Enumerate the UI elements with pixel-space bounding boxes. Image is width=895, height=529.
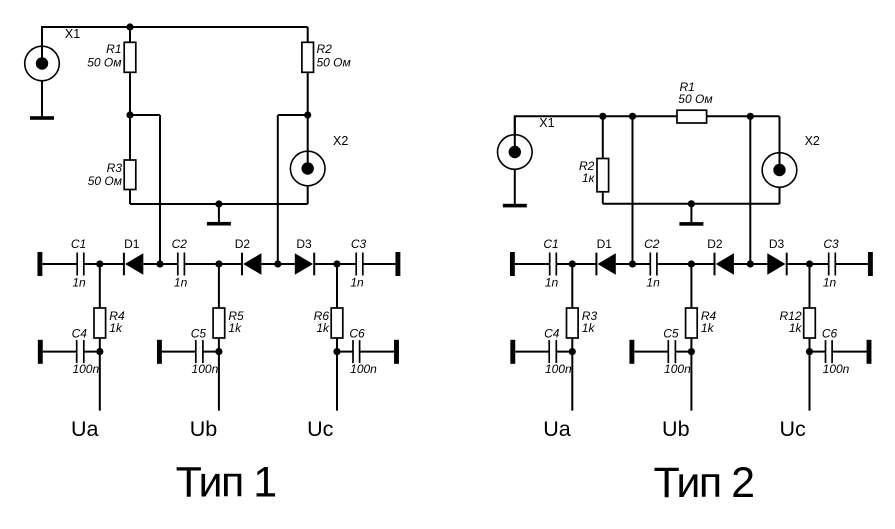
svg-text:1к: 1к [582, 171, 596, 185]
resistor R12 (type2) [804, 308, 816, 338]
wire [99, 338, 101, 352]
resistor R4 (type1) [94, 308, 106, 338]
wire [100, 263, 124, 265]
svg-text:100n: 100n [192, 362, 219, 376]
wire [832, 351, 866, 353]
wire [787, 263, 829, 265]
wire [43, 351, 77, 353]
wire (rail after R1) [707, 115, 780, 117]
wire (riser to D1/C2 node) [159, 115, 161, 264]
terminal (C4 ground type1) [38, 340, 43, 364]
wire [515, 263, 550, 265]
terminal (right rail end type1) [395, 252, 400, 276]
terminal (C4 ground type2) [510, 340, 515, 364]
svg-text:Ub: Ub [190, 417, 218, 441]
node A (R1/R3 tap) [126, 111, 133, 118]
capacitor C4 (type2) [549, 340, 556, 363]
svg-text:X1: X1 [65, 27, 80, 41]
diode D1 (type2) [596, 253, 615, 276]
wire [360, 351, 394, 353]
wire [835, 263, 868, 265]
svg-text:D1: D1 [124, 237, 140, 251]
wire (ground stem) [218, 204, 220, 222]
svg-text:100n: 100n [823, 362, 850, 376]
svg-text:50 Ом: 50 Ом [678, 92, 712, 106]
wire [261, 263, 296, 265]
svg-text:Ua: Ua [71, 417, 99, 441]
wire (X1 to ground) [41, 81, 43, 117]
wire (output stub Ua) [99, 352, 101, 411]
capacitor C1 (type2) [550, 253, 557, 276]
resistor R2 (type1) [302, 42, 314, 72]
node C1/D1 (type1) [96, 260, 103, 267]
resistor R1 (type1) [124, 42, 136, 72]
svg-text:R1: R1 [106, 42, 121, 56]
wire (R3 top stem) [129, 115, 131, 160]
node Ub output (type1) [215, 348, 222, 355]
wire [634, 351, 668, 353]
wire [572, 263, 596, 265]
wire (tap to riser) [130, 114, 160, 116]
wire [571, 264, 573, 308]
wire (output stub Uc) [809, 352, 811, 411]
svg-text:C6: C6 [349, 327, 365, 341]
capacitor C2 (type1) [178, 253, 185, 276]
wire [690, 264, 692, 308]
wire (R2 top stem, type2) [602, 116, 604, 158]
wire [84, 351, 100, 353]
node C1/D1 (type2) [569, 260, 576, 267]
svg-text:1n: 1n [823, 275, 837, 289]
terminal (left rail end type2) [510, 252, 515, 276]
wire [363, 263, 396, 265]
wire (output stub Ua) [571, 352, 573, 411]
svg-text:C2: C2 [644, 237, 660, 251]
wire (top rail to R1) [514, 115, 677, 117]
terminal (C6 ground type2) [867, 340, 872, 364]
svg-text:Ub: Ub [662, 417, 690, 441]
svg-text:1k: 1k [582, 321, 596, 335]
wire (riser to D1/C2 node, type2) [632, 116, 634, 264]
node rail/R2 (type2) [599, 113, 606, 120]
wire [162, 351, 196, 353]
node rail/R1 [126, 23, 133, 30]
wire (X1 stem to rail) [41, 27, 43, 47]
svg-text:C3: C3 [351, 237, 367, 251]
wire [203, 351, 219, 353]
wire [571, 338, 573, 352]
node C2/D2 (type2) [688, 260, 695, 267]
wire (X1 stem to rail, type2) [514, 116, 516, 134]
wire [809, 338, 811, 352]
svg-text:50 Ом: 50 Ом [87, 55, 121, 69]
wire (R2 bottom) [307, 72, 309, 115]
svg-text:Ua: Ua [543, 417, 571, 441]
wire (R3 to bottom rail) [129, 190, 131, 205]
wire (bottom rail left) [130, 203, 308, 205]
capacitor C6 (type2) [826, 340, 833, 363]
wire (X2 to bottom rail, type2) [779, 187, 781, 204]
node C2/D2 (type1) [215, 260, 222, 267]
diode D3 (type1) [295, 253, 314, 276]
wire [556, 263, 572, 265]
wire [657, 263, 715, 265]
svg-text:Uc: Uc [779, 417, 806, 441]
node rail/riser2 (type2) [747, 113, 754, 120]
node B (R2/X2 tap) [304, 111, 311, 118]
svg-text:C5: C5 [191, 327, 207, 341]
node D2/D3 (type1) [274, 260, 281, 267]
capacitor C5 (type1) [196, 340, 203, 363]
svg-text:R2: R2 [317, 42, 333, 56]
wire [337, 351, 353, 353]
wire (output stub Ub) [218, 352, 220, 411]
ground (X1 type2) [503, 204, 527, 208]
svg-text:X2: X2 [333, 134, 348, 148]
node Uc output (type1) [333, 348, 340, 355]
terminal (left rail end type1) [37, 252, 42, 276]
node Uc output (type2) [806, 348, 813, 355]
wire (output stub Ub) [690, 352, 692, 411]
wire [734, 263, 769, 265]
svg-text:100n: 100n [72, 362, 99, 376]
svg-text:1k: 1k [789, 321, 803, 335]
svg-text:1n: 1n [545, 275, 559, 289]
wire (R1 top stem) [129, 27, 131, 42]
wire (R2 to bottom rail) [602, 192, 604, 204]
connector X2 (type1) [290, 115, 325, 186]
node ground rail (type2) [688, 200, 695, 207]
svg-text:1k: 1k [228, 321, 242, 335]
svg-text:X1: X1 [539, 116, 554, 130]
capacitor C1 (type1) [77, 253, 84, 276]
svg-text:100n: 100n [664, 362, 691, 376]
svg-text:100n: 100n [350, 362, 377, 376]
wire (tap to riser B) [278, 114, 308, 116]
terminal (C6 ground type1) [394, 340, 399, 364]
resistor R5 (type1) [213, 308, 225, 338]
svg-text:D3: D3 [769, 237, 785, 251]
ground (X1 type1) [30, 116, 54, 120]
svg-text:C5: C5 [663, 327, 679, 341]
wire (riser to D2/D3 node) [277, 115, 279, 264]
svg-text:1k: 1k [109, 321, 123, 335]
diode D2 (type2) [715, 253, 734, 276]
wire [218, 338, 220, 352]
wire (ground stem, type2) [690, 204, 692, 222]
connector X1 (type2) [498, 116, 533, 169]
wire [143, 263, 178, 265]
svg-text:Тип 1: Тип 1 [176, 459, 276, 507]
wire (X2 to bottom rail) [307, 186, 309, 204]
wire [218, 264, 220, 308]
svg-text:1n: 1n [174, 275, 188, 289]
connector X1 (type1) [25, 27, 60, 81]
svg-text:50 Ом: 50 Ом [317, 55, 351, 69]
ground (center type1) [207, 222, 231, 226]
node D3/C3 (type2) [806, 260, 813, 267]
wire [84, 263, 100, 265]
svg-text:C2: C2 [172, 237, 188, 251]
node ground rail (type1) [215, 200, 222, 207]
wire (R1 bottom) [129, 72, 131, 115]
svg-text:1n: 1n [72, 275, 86, 289]
wire [42, 263, 77, 265]
diode D1 (type1) [124, 253, 143, 276]
node D1/C2 (type2) [629, 260, 636, 267]
wire [336, 264, 338, 308]
wire [690, 338, 692, 352]
capacitor C6 (type1) [353, 340, 360, 363]
resistor R3 (type1) [124, 160, 136, 190]
wire [99, 264, 101, 308]
wire (output stub Uc) [336, 352, 338, 411]
capacitor C5 (type2) [668, 340, 675, 363]
node Ub output (type2) [688, 348, 695, 355]
wire [809, 264, 811, 308]
svg-text:1n: 1n [646, 275, 660, 289]
capacitor C3 (type1) [356, 253, 363, 276]
wire [616, 263, 651, 265]
terminal (right rail end type2) [868, 252, 873, 276]
wire (X1 to ground, type2) [514, 170, 516, 204]
terminal (C5 ground type2) [629, 340, 634, 364]
node Ua output (type2) [569, 348, 576, 355]
resistor R1 (type2, horizontal) [677, 110, 707, 123]
ground (center type2) [679, 222, 703, 226]
svg-text:R3: R3 [107, 161, 123, 175]
node D3/C3 (type1) [333, 260, 340, 267]
resistor R4 (type2) [686, 308, 698, 338]
svg-text:C1: C1 [543, 237, 558, 251]
node rail/riser1 (type2) [629, 113, 636, 120]
svg-text:D2: D2 [707, 237, 723, 251]
svg-text:X2: X2 [805, 134, 820, 148]
wire [314, 263, 356, 265]
svg-text:C4: C4 [72, 327, 88, 341]
svg-text:C6: C6 [822, 327, 838, 341]
wire (top rail left) [41, 26, 308, 28]
svg-text:1k: 1k [701, 321, 715, 335]
capacitor C2 (type2) [650, 253, 657, 276]
capacitor C3 (type2) [829, 253, 836, 276]
svg-text:1n: 1n [350, 275, 364, 289]
node D2/D3 (type2) [747, 260, 754, 267]
resistor R2 (type2) [597, 159, 609, 192]
wire [336, 338, 338, 352]
svg-text:D2: D2 [235, 237, 251, 251]
wire [184, 263, 242, 265]
resistor R3 (type2) [567, 308, 579, 338]
wire [675, 351, 691, 353]
wire (riser to D2/D3 node, type2) [749, 116, 751, 264]
diode D2 (type1) [242, 253, 261, 276]
svg-text:C1: C1 [71, 237, 86, 251]
terminal (C5 ground type1) [157, 340, 162, 364]
svg-text:1k: 1k [316, 321, 330, 335]
svg-text:Тип 2: Тип 2 [653, 459, 753, 507]
svg-text:D3: D3 [296, 237, 312, 251]
svg-text:C4: C4 [544, 327, 560, 341]
svg-text:50 Ом: 50 Ом [88, 174, 122, 188]
resistor R6 (type1) [331, 308, 343, 338]
capacitor C4 (type1) [77, 340, 84, 363]
wire [810, 351, 826, 353]
diode D3 (type2) [767, 253, 786, 276]
node Ua output (type1) [96, 348, 103, 355]
svg-text:C3: C3 [823, 237, 839, 251]
connector X2 (type2) [762, 116, 797, 187]
svg-text:Uc: Uc [307, 417, 334, 441]
svg-text:100n: 100n [545, 362, 572, 376]
wire [515, 351, 549, 353]
node D1/C2 (type1) [156, 260, 163, 267]
wire (bottom rail, type2) [603, 203, 780, 205]
wire [556, 351, 572, 353]
wire (R2 top stem) [307, 27, 309, 42]
svg-text:D1: D1 [597, 237, 613, 251]
